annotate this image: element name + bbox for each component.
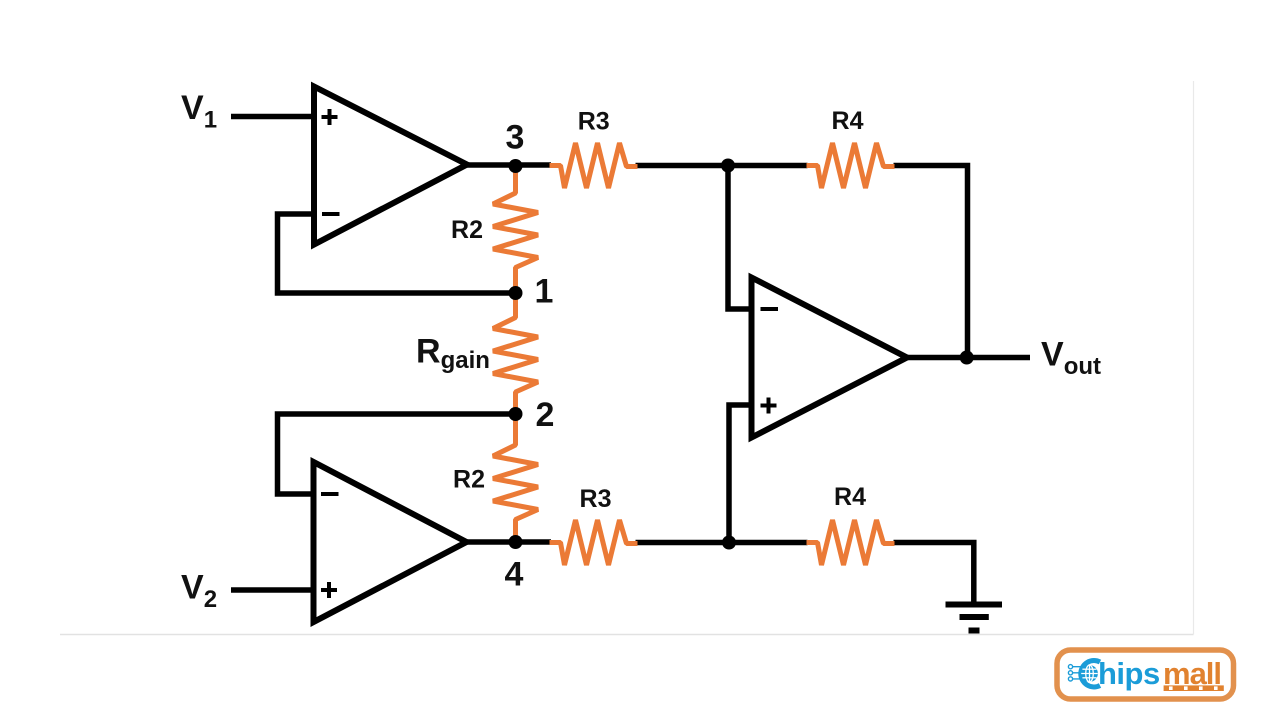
top junction dot (R3/R4/U3) xyxy=(721,159,735,173)
node 4 junction dot xyxy=(509,535,523,549)
svg-text:1: 1 xyxy=(535,273,554,311)
op-amp U1 plus input symbol xyxy=(322,109,338,125)
wire op-amp U2 feedback (inverting input to node 2) xyxy=(278,414,517,494)
svg-text:R4: R4 xyxy=(832,107,864,135)
resistor Rgain (node 1 to node 2) xyxy=(493,293,538,414)
resistor R4 (bottom) xyxy=(807,520,895,565)
frame edge bottom xyxy=(60,634,1194,636)
svg-text:R2: R2 xyxy=(453,466,485,494)
op-amp U2 minus input symbol xyxy=(321,492,339,496)
wire junction down to U3 inverting input xyxy=(728,168,754,309)
op-amp U3 xyxy=(752,278,908,438)
resistor R2 (upper, node 3 to node 1) xyxy=(493,166,538,293)
wire R3 to junction to R4 xyxy=(636,163,808,169)
wire R4 right lead, corner down to Vout node xyxy=(894,166,968,358)
op-amp U1 xyxy=(314,87,467,245)
wire op-amp U2 output to node 4 and bottom R3 xyxy=(463,539,551,545)
node 2 junction dot xyxy=(509,407,523,421)
op-amp U3 minus input symbol xyxy=(761,307,779,311)
op-amp U2 xyxy=(314,462,467,622)
wire V2 input lead xyxy=(231,587,316,593)
wire op-amp U1 feedback (inverting input to node 1) xyxy=(278,214,517,293)
svg-text:R3: R3 xyxy=(580,485,612,513)
ground xyxy=(946,605,1003,631)
wire op-amp U1 output to node 3 and R3 xyxy=(463,162,551,168)
bottom junction dot (R3/R4/U3) xyxy=(722,536,736,550)
resistor R4 (top) xyxy=(807,143,895,188)
resistor R3 (bottom) xyxy=(550,520,638,565)
svg-text:hips: hips xyxy=(1098,656,1160,691)
resistor R3 (top) xyxy=(550,143,638,188)
svg-text:3: 3 xyxy=(506,118,525,156)
node 1 junction dot xyxy=(509,286,523,300)
op-amp U2 plus input symbol xyxy=(321,582,337,598)
wire V1 input lead xyxy=(231,114,316,120)
chipsmall logo xyxy=(1057,650,1234,699)
wire U3 output to Vout xyxy=(903,355,1030,361)
frame edge right xyxy=(1193,81,1195,635)
svg-text:R4: R4 xyxy=(834,483,866,511)
Vout junction dot xyxy=(960,351,974,365)
svg-text:R2: R2 xyxy=(451,216,483,244)
wire U3 non-inverting input down to bottom junction xyxy=(729,405,754,545)
node 3 junction dot xyxy=(509,159,523,173)
wire bottom R3 to bottom junction to bottom R4 xyxy=(636,540,808,546)
svg-text:R3: R3 xyxy=(578,107,610,135)
wire bottom R4 right lead, corner down to ground xyxy=(894,543,974,602)
op-amp U3 plus input symbol xyxy=(761,398,777,414)
svg-text:2: 2 xyxy=(536,396,555,434)
resistor R2 (lower, node 2 to node 4) xyxy=(493,414,538,542)
op-amp U1 minus input symbol xyxy=(322,212,340,216)
svg-text:4: 4 xyxy=(505,556,524,594)
